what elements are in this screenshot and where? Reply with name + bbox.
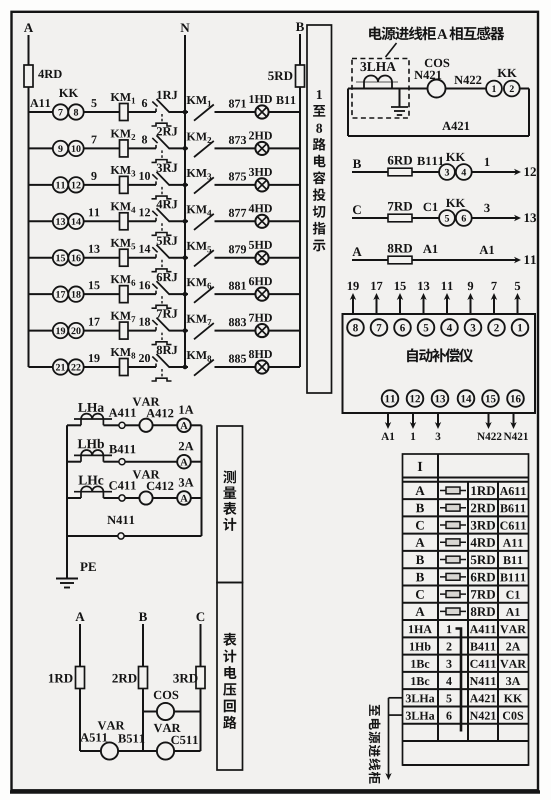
wire to B11 bus	[269, 366, 300, 368]
wire to B11 bus	[269, 330, 300, 332]
pin 15 of compensator	[482, 390, 499, 407]
wire/arrow to node N421	[513, 413, 515, 425]
wire to N bus	[170, 330, 189, 332]
node 871	[229, 100, 234, 108]
switch KK label	[446, 153, 455, 161]
wire loop right/bottom (net A421)	[520, 88, 529, 90]
wire to B11 bus	[269, 111, 300, 113]
node 877	[229, 209, 234, 217]
switch KK label	[446, 199, 455, 207]
thermal relay contact 6RJ	[155, 291, 157, 295]
wire right common	[201, 425, 203, 536]
wire	[128, 147, 156, 149]
node 1	[485, 158, 490, 166]
thermal relay contact 7RJ	[155, 327, 157, 331]
ammeter 1A	[177, 419, 191, 433]
fuse 2RD	[139, 667, 148, 689]
switch KK contact 8	[68, 104, 83, 119]
thermal relay heater 1RJ	[161, 114, 163, 122]
wire B bus vertical (B11)	[299, 34, 301, 367]
wire to B11 bus	[269, 147, 300, 149]
switch KK contact 11	[53, 177, 68, 192]
wire	[215, 257, 256, 259]
switch KK contact 18	[68, 286, 83, 301]
wire phase A	[79, 624, 81, 751]
contactor contact KM1	[194, 105, 214, 121]
wire/arrow to node 13	[423, 296, 425, 314]
wire to N bus	[170, 220, 189, 222]
pin 3 of compensator	[465, 319, 482, 336]
node 875	[229, 172, 234, 180]
switch KK contact 1	[486, 81, 502, 97]
junction on N bus	[183, 255, 188, 260]
terminal row: 1Bc pin 3 net C411 meter VAR	[411, 660, 415, 668]
wire	[191, 424, 202, 426]
pin 7 of compensator	[371, 319, 388, 336]
wire phase B	[142, 624, 144, 751]
wire	[128, 257, 156, 259]
node A412	[146, 409, 155, 417]
wire N411 row	[67, 535, 202, 537]
wire to B11 bus	[269, 257, 300, 259]
node 873	[229, 136, 234, 144]
wire	[153, 424, 178, 426]
junction on N bus	[183, 219, 188, 224]
terminal row: phase C fuse 7RD net C1	[416, 590, 424, 599]
pin 4 of compensator	[441, 319, 458, 336]
wire/arrow to node 11	[446, 296, 448, 314]
current transformer LHc	[67, 497, 81, 499]
terminal row: phase A fuse 4RD net A11	[415, 538, 424, 547]
node 12	[139, 208, 143, 216]
wire to N bus	[170, 293, 189, 295]
pin 16 of compensator	[507, 390, 524, 407]
wire VAR branch	[80, 750, 201, 752]
thermal relay heater 3RJ	[161, 187, 163, 195]
thermal relay contact 3RJ	[155, 181, 157, 185]
arrow to compensator	[514, 169, 521, 175]
node B111	[417, 157, 425, 165]
contactor coil KM5	[120, 249, 129, 266]
wire to B11 bus	[269, 220, 300, 222]
switch KK contact 5	[439, 210, 455, 226]
node 11	[89, 208, 93, 216]
wire left common (to PE)	[66, 425, 68, 578]
terminal row: phase A fuse 8RD net A1	[415, 607, 424, 616]
switch KK contact 14	[68, 214, 83, 229]
ammeter 3A	[177, 491, 191, 505]
wire to B11 bus	[269, 293, 300, 295]
arrow to compensator	[514, 257, 521, 263]
wire	[352, 217, 516, 219]
switch KK contact 10	[68, 141, 83, 156]
contactor contact KM7	[194, 323, 214, 339]
branch row 5: wire from A bus	[29, 257, 53, 259]
node A (phase A bus)	[24, 23, 33, 32]
wire	[103, 424, 119, 426]
contactor contact KM8	[194, 360, 214, 376]
indicator lamp 7HD	[255, 324, 268, 337]
node 16	[139, 281, 143, 289]
terminal group I	[418, 462, 423, 471]
node 14	[139, 245, 143, 253]
wire	[125, 497, 139, 499]
current transformer 3LHA secondary winding	[364, 76, 392, 89]
contactor contact KM6	[194, 287, 214, 303]
thermal relay contact 4RJ	[155, 218, 157, 222]
thermal relay heater 5RJ	[161, 260, 163, 268]
indicator lamp 3HD	[255, 178, 268, 191]
fuse 8RD	[388, 256, 412, 264]
terminal row: 1HA pin 1 net A411 meter VAR	[409, 625, 413, 633]
pin 5 of compensator	[418, 319, 435, 336]
switch KK contact 17	[53, 286, 68, 301]
wire/arrow to node 15	[399, 296, 401, 314]
terminal row: phase A fuse 1RD net A611	[415, 486, 424, 495]
indicator lamp 6HD	[255, 288, 268, 301]
current transformer 3LHA dashed enclosure	[352, 59, 409, 119]
wire	[84, 257, 119, 259]
wire down to incoming cabinet	[388, 698, 390, 776]
switch KK contact 21	[53, 359, 68, 374]
fuse 7RD	[388, 214, 412, 222]
wire	[446, 88, 487, 90]
meter COS (power factor)	[157, 703, 174, 720]
node 3	[484, 204, 489, 212]
indicator lamp 2HD	[255, 142, 268, 155]
wire	[128, 293, 156, 295]
wire	[84, 111, 119, 113]
wire	[215, 220, 256, 222]
node 13	[89, 245, 93, 253]
current transformer 3LHA primary bar	[356, 81, 398, 83]
wire	[84, 147, 119, 149]
node C412	[147, 482, 154, 490]
wire to N bus	[170, 184, 189, 186]
wire	[103, 461, 119, 463]
contactor contact KM4	[194, 214, 214, 230]
wire COS branch	[143, 711, 201, 713]
node 881	[229, 282, 234, 290]
wire/arrow to node A1	[387, 413, 389, 425]
wire	[352, 259, 516, 261]
wire	[84, 220, 119, 222]
switch KK label	[497, 69, 506, 77]
arrow to compensator	[514, 215, 521, 221]
switch KK contact 12	[68, 177, 83, 192]
wire	[128, 330, 156, 332]
wire to incoming cabinet (row 6)	[389, 714, 403, 716]
indicator lamp 1HD	[255, 105, 268, 118]
wire to incoming cabinet (row 5)	[389, 697, 403, 699]
wire/arrow to node N422	[488, 413, 490, 425]
measurement meters legend box	[217, 426, 243, 583]
junction on N bus	[183, 183, 188, 188]
thermal relay contact 8RJ	[155, 364, 157, 368]
indicator lamp 4HD	[255, 215, 268, 228]
contactor contact KM2	[194, 141, 214, 157]
cable wire inside table	[456, 629, 462, 732]
switch KK contact 9	[53, 141, 68, 156]
node B11	[276, 96, 283, 104]
pin 1 of compensator	[512, 319, 529, 336]
node 19	[89, 354, 93, 362]
contactor coil KM7	[120, 322, 129, 339]
indicator lamp 5HD	[255, 251, 268, 264]
thermal relay heater 8RJ	[161, 369, 163, 377]
wire	[84, 293, 119, 295]
terminal row: phase B fuse 6RD net B111	[416, 573, 424, 582]
wire/arrow to node 3	[437, 413, 439, 425]
node B511	[118, 734, 126, 742]
meter VAR (B-C)	[157, 742, 174, 759]
pin 11 of compensator	[382, 390, 399, 407]
terminal row: phase B fuse 2RD net B611	[416, 504, 424, 513]
switch KK label	[59, 89, 68, 97]
meter VAR	[139, 491, 152, 504]
auto compensation controller U1 (自动补偿仪) box	[343, 314, 536, 413]
wire	[352, 171, 516, 173]
switch KK contact 2	[504, 81, 520, 97]
contactor coil KM1	[120, 104, 129, 121]
wire to B11 bus	[269, 184, 300, 186]
branch row 7: wire from A bus	[29, 330, 53, 332]
node 18	[139, 318, 143, 326]
switch KK contact 7	[53, 104, 68, 119]
wire	[153, 497, 178, 499]
wire	[215, 366, 256, 368]
pin 13	[525, 213, 530, 222]
node C1	[423, 203, 430, 211]
junction on N bus	[183, 292, 188, 297]
node A421	[442, 122, 451, 130]
wire	[215, 293, 256, 295]
switch KK contact 3	[439, 164, 455, 180]
terminal A411	[119, 422, 125, 428]
wire to N bus	[170, 257, 189, 259]
pin 6 of compensator	[394, 319, 411, 336]
terminal row: phase B fuse 5RD net B11	[416, 556, 424, 565]
wire N bus vertical	[184, 35, 186, 367]
switch KK contact 4	[456, 164, 472, 180]
wire	[215, 330, 256, 332]
node 17	[89, 318, 93, 326]
junction on N bus	[183, 146, 188, 151]
pin 14 of compensator	[458, 390, 475, 407]
switch KK contact 19	[53, 323, 68, 338]
label: to incoming supply cabinet	[369, 705, 381, 784]
wire	[191, 497, 202, 499]
wire	[84, 184, 119, 186]
node A (feeder)	[352, 247, 361, 256]
node N422	[454, 76, 463, 84]
wire/arrow to node 7	[493, 296, 495, 314]
terminal B411	[119, 459, 125, 465]
wire	[128, 184, 156, 186]
switch KK contact 22	[68, 359, 83, 374]
wire to N bus	[170, 111, 189, 113]
node N421	[414, 71, 423, 79]
node B (feeder)	[353, 159, 361, 168]
capacitor switching indicator legend box	[307, 25, 332, 393]
contactor coil KM6	[120, 286, 129, 303]
node A511	[80, 733, 89, 741]
node B (phase B bus)	[296, 22, 304, 31]
pin 2 of compensator	[488, 319, 505, 336]
wire	[215, 147, 256, 149]
ground PE	[56, 578, 78, 580]
node 15	[89, 281, 93, 289]
terminal N411	[118, 533, 124, 539]
terminal row: 3LHa pin 5 net A421 meter KK	[406, 694, 411, 702]
branch row 1: wire from A bus	[29, 111, 53, 113]
node C511	[171, 736, 178, 744]
fuse 3RD	[196, 667, 205, 689]
leader line	[386, 43, 397, 57]
current transformer LHb	[67, 461, 81, 463]
node C (feeder)	[353, 205, 361, 214]
meter VAR	[139, 419, 152, 432]
wire/arrow to node 19	[352, 296, 354, 314]
label: incoming supply cabinet phase-A CT (title)	[369, 27, 382, 40]
wire	[125, 424, 139, 426]
node 879	[229, 245, 234, 253]
branch row 8: wire from A bus	[29, 366, 53, 368]
wire phase C	[200, 624, 202, 751]
wire	[103, 497, 119, 499]
fuse 1RD	[76, 667, 85, 689]
wire	[84, 330, 119, 332]
pin 12 of compensator	[407, 390, 424, 407]
thermal relay heater 2RJ	[161, 150, 163, 158]
node 885	[229, 355, 234, 363]
thermal relay contact 2RJ	[155, 145, 157, 149]
node A (voltage circuit)	[75, 612, 84, 621]
meter VAR (A-B)	[101, 742, 118, 759]
wire to N bus	[170, 147, 189, 149]
node A1	[423, 245, 432, 253]
branch row 2: wire from A bus	[29, 147, 53, 149]
pin 8 of compensator	[347, 319, 364, 336]
fuse 4RD	[24, 65, 33, 87]
node 10	[139, 172, 143, 180]
terminal row: 1Hb pin 2 net B411 meter 2A	[410, 643, 414, 651]
wire	[125, 461, 177, 463]
branch row 4: wire from A bus	[29, 220, 53, 222]
node 883	[229, 318, 234, 326]
terminal row: phase C fuse 3RD net C611	[416, 521, 424, 530]
node 8	[142, 135, 147, 143]
wire/arrow to node 17	[376, 296, 378, 314]
switch KK contact 16	[68, 250, 83, 265]
junction on N bus	[183, 365, 188, 370]
wire	[215, 111, 256, 113]
terminal C411	[119, 495, 125, 501]
branch row 3: wire from A bus	[29, 184, 53, 186]
fuse 5RD	[296, 65, 305, 87]
node A11	[30, 99, 38, 107]
thermal relay heater 7RJ	[161, 333, 163, 341]
contactor contact KM3	[194, 177, 214, 193]
wire/arrow to node 9	[470, 296, 472, 314]
wire secondary loop	[348, 88, 428, 90]
pin 12	[525, 167, 530, 176]
contactor coil KM4	[120, 213, 129, 230]
node 20	[139, 354, 144, 362]
thermal relay contact 1RJ	[155, 109, 157, 113]
node N (neutral bus)	[181, 23, 190, 32]
node 7	[92, 136, 97, 144]
thermal relay heater 4RJ	[161, 223, 163, 231]
branch row 6: wire from A bus	[29, 293, 53, 295]
junction on N bus	[183, 110, 188, 115]
switch KK contact 6	[456, 210, 472, 226]
terminal row: 1Bc pin 4 net N411 meter 3A	[411, 677, 415, 685]
node A1	[479, 246, 488, 254]
wire	[84, 366, 119, 368]
contactor coil KM3	[120, 176, 129, 193]
contactor coil KM2	[120, 140, 129, 157]
switch KK contact 15	[53, 250, 68, 265]
node 6	[142, 99, 147, 107]
node B (voltage circuit)	[139, 612, 147, 621]
pin 13 of compensator	[432, 390, 449, 407]
thermal relay contact 5RJ	[155, 254, 157, 258]
fuse 6RD	[388, 168, 412, 176]
wire to N bus	[170, 366, 189, 368]
wire	[128, 366, 156, 368]
terminal block table	[403, 454, 529, 765]
node 9	[91, 172, 96, 180]
node C (voltage circuit)	[196, 612, 204, 621]
switch KK contact 13	[53, 214, 68, 229]
switch KK contact 20	[68, 323, 83, 338]
terminal row: 3LHa pin 6 net N421 meter C0S	[406, 712, 411, 720]
meter voltage circuit legend box	[217, 583, 243, 771]
current transformer LHa	[67, 424, 81, 426]
wire	[215, 184, 256, 186]
thermal relay heater 6RJ	[161, 296, 163, 304]
wire/arrow to node 1	[412, 413, 414, 425]
pin 11	[525, 255, 530, 264]
ground (3LHA secondary earth)	[399, 89, 401, 107]
node PE	[80, 562, 87, 571]
wire	[128, 220, 156, 222]
wire	[191, 461, 202, 463]
ammeter 2A	[177, 455, 191, 469]
junction on N bus	[183, 328, 188, 333]
node 5	[91, 99, 96, 107]
indicator lamp 8HD	[255, 360, 268, 373]
contactor contact KM5	[194, 250, 214, 266]
meter COS (power factor)	[428, 80, 446, 98]
wire A bus vertical	[28, 35, 30, 367]
wire	[128, 111, 156, 113]
wire/arrow to node 5	[517, 296, 519, 314]
contactor coil KM8	[120, 359, 129, 376]
